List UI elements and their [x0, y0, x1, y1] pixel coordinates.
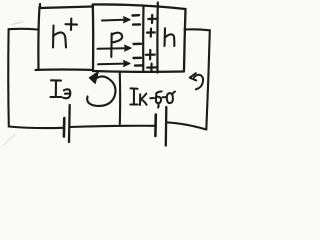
battery B2 short plate — [154, 115, 157, 137]
emitter current loop arrow — [87, 72, 115, 106]
electron arrow 1 in p region — [102, 17, 130, 23]
right rail wire down — [206, 30, 210, 129]
emitter wire: box left to left rail — [9, 28, 38, 31]
faint pencil smudge top-left — [12, 22, 23, 25]
label p (base) — [111, 33, 122, 57]
left rail wire down — [7, 29, 10, 126]
battery B2 long plate — [165, 107, 168, 146]
bottom wire left segment — [9, 127, 63, 129]
base wire down from p region — [119, 72, 121, 124]
electron arrow 2 in p region — [98, 45, 132, 51]
depletion negative charges column — [133, 15, 143, 65]
label n (collector) — [165, 28, 175, 46]
depletion positive charges column — [146, 15, 156, 71]
junction boundary line 2 — [156, 3, 159, 73]
battery B1 short plate — [63, 118, 66, 137]
label I-e (emitter current) — [51, 80, 71, 98]
faint pencil smudge bottom-left — [3, 135, 15, 146]
base/collector outer box — [93, 4, 186, 71]
battery B1 long plate — [68, 105, 71, 142]
electron arrow 3 in p region — [98, 61, 130, 67]
label n+ (emitter) — [53, 19, 77, 48]
label I k-b-o (collector reverse current) — [130, 88, 175, 107]
collector current loop arrow — [190, 73, 203, 89]
bottom wire right segment — [167, 122, 207, 129]
collector wire: box right to right rail — [185, 29, 210, 30]
junction boundary line 1 — [142, 6, 145, 71]
bottom wire middle segment — [70, 126, 155, 127]
emitter region box n+ — [36, 4, 94, 70]
